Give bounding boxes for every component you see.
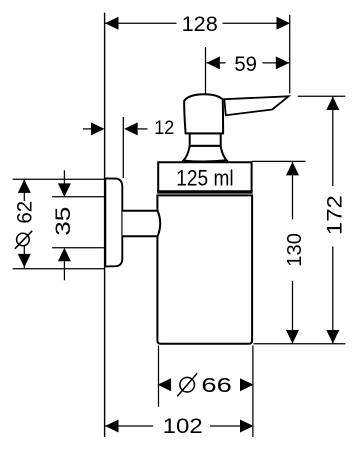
dim 12: extension line (122, 117, 124, 178)
label D62 (rotated): circle+slash+62 (13, 201, 37, 249)
svg-text:130: 130 (284, 233, 306, 267)
dim 130: arrows (286, 162, 299, 176)
dim 102: arrows (105, 420, 119, 433)
dim 102: line (105, 425, 153, 427)
label band thick bottom edge (157, 190, 252, 193)
dim 172: line (332, 97, 334, 187)
dim 59: extension line left (205, 47, 207, 94)
dim D66: arrows (158, 378, 172, 391)
dim 128: arrows (105, 17, 119, 30)
dim 59: arrows (206, 56, 220, 69)
baseline (254, 343, 346, 345)
dim 172: top extension line (298, 95, 346, 97)
svg-text:102: 102 (163, 415, 203, 438)
pump flare (183, 146, 226, 162)
wall plate (105, 178, 122, 266)
dim 35: extension lines (52, 196, 104, 198)
holder arm (123, 211, 161, 237)
pump head (184, 94, 223, 133)
dim 128: line (105, 22, 177, 24)
dim 172: arrows (326, 97, 339, 111)
dim 130: line (292, 162, 294, 219)
svg-text:12: 12 (154, 118, 174, 139)
pump neck ring (190, 133, 221, 145)
dim 35: line top (63, 170, 65, 184)
svg-text:59: 59 (234, 52, 257, 76)
bottle body (157, 195, 252, 343)
dim 35: line bottom (58, 248, 71, 261)
svg-text:128: 128 (182, 12, 218, 36)
svg-text:172: 172 (322, 195, 346, 235)
pump lever (224, 96, 288, 115)
dim 128: extension line right (289, 15, 291, 94)
svg-text:62: 62 (13, 201, 37, 224)
svg-text:66: 66 (201, 374, 231, 397)
dim D62: extension lines (13, 178, 104, 180)
svg-text:125 ml: 125 ml (176, 165, 233, 190)
wall line (104, 13, 106, 437)
svg-text:35: 35 (52, 207, 75, 236)
dim D62: arrows (18, 179, 31, 193)
dim 12: right arrow+line (124, 122, 138, 135)
label band (158, 162, 251, 192)
dim 12: left line+arrow (83, 128, 92, 130)
label D66: circle+slash+66 (177, 373, 231, 397)
dim 130: top extension line (252, 160, 306, 162)
dim 59: line (206, 62, 225, 64)
dim D62: line (23, 179, 25, 201)
dim D66: extension lines (158, 346, 160, 407)
